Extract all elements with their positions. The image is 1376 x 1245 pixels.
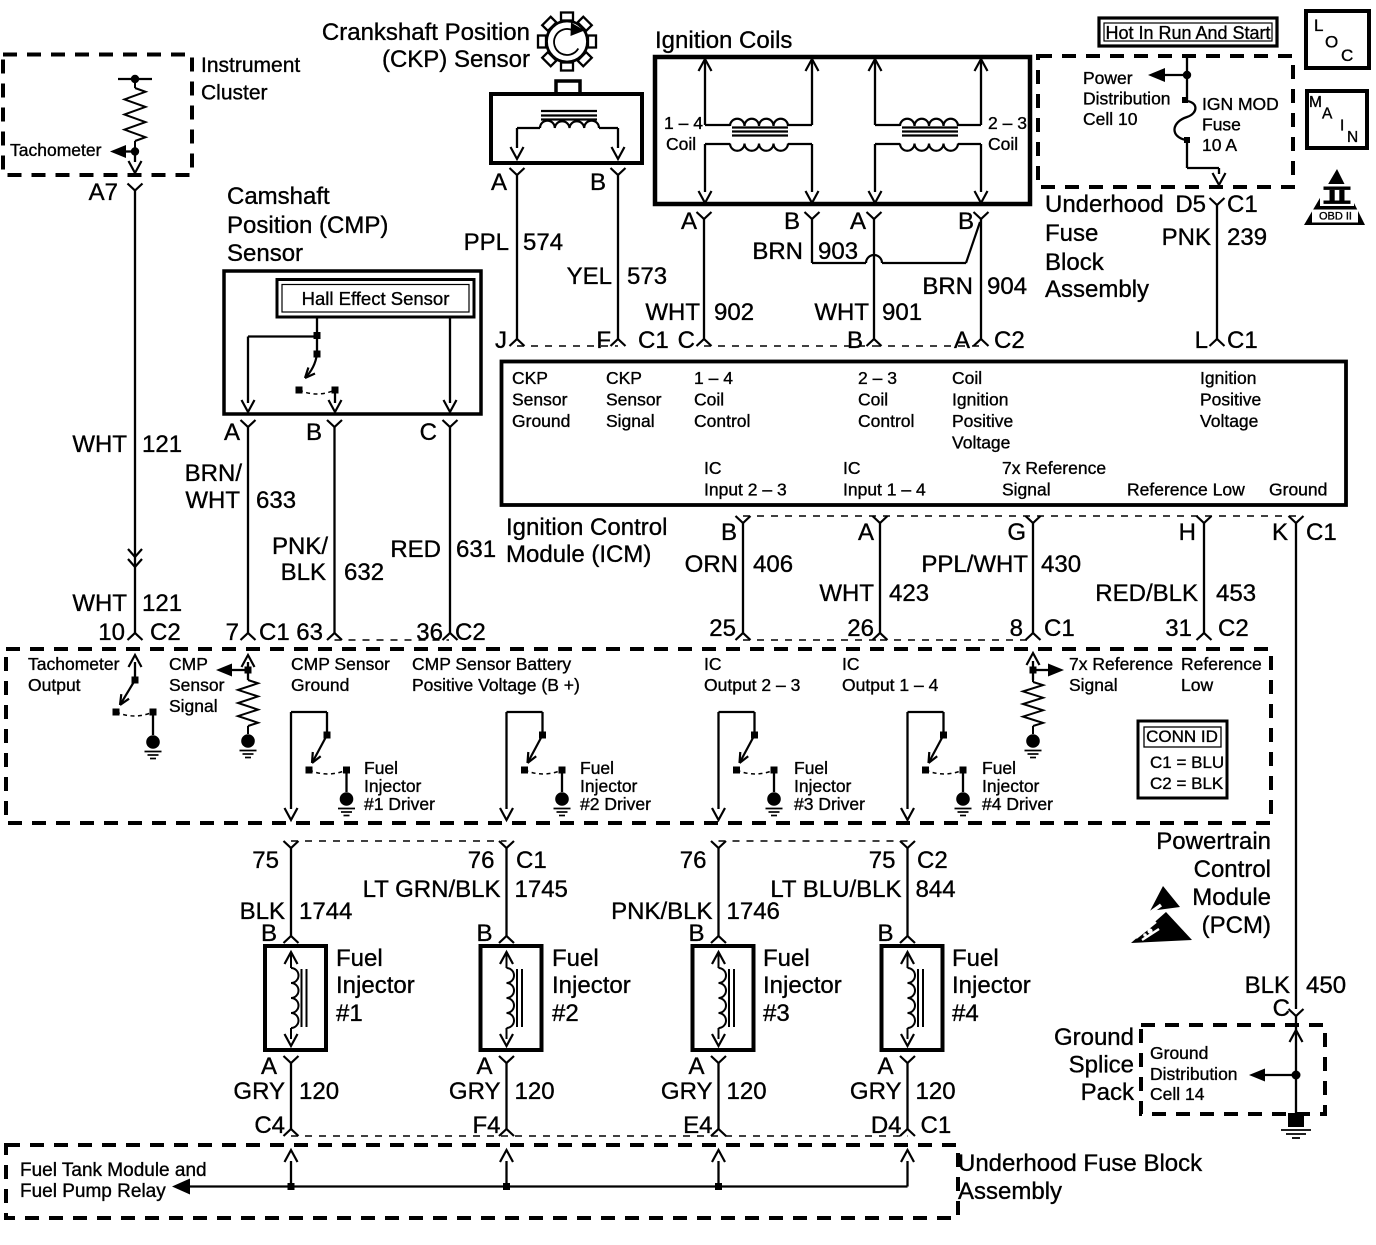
7x reference right arrow — [1033, 664, 1064, 677]
svg-text:B: B — [877, 920, 893, 947]
svg-text:Pack: Pack — [1081, 1079, 1135, 1106]
pin C label — [420, 419, 437, 446]
ICM label IC Input 1-4 — [843, 458, 926, 500]
label Fuel Injector #2 — [552, 945, 631, 1027]
svg-text:LT BLU/BLK: LT BLU/BLK — [770, 876, 901, 903]
wire WHT 423 — [879, 523, 881, 633]
PCM label CMP Sensor Ground — [291, 654, 390, 695]
pin G label bottom — [1007, 519, 1026, 546]
CKP pin A label — [491, 169, 507, 196]
pin 75 labels injector 1 — [252, 847, 279, 874]
label WHT 902 — [645, 299, 754, 326]
svg-text:Position (CMP): Position (CMP) — [227, 212, 388, 239]
pin A fork icm — [974, 339, 989, 346]
svg-text:A: A — [261, 1053, 277, 1080]
svg-text:1 – 4: 1 – 4 — [694, 368, 733, 388]
pin K fork bottom — [1289, 516, 1304, 523]
CKP sensor stub box — [556, 81, 580, 94]
CMP sensor box — [224, 271, 481, 414]
CKP wire B arrow — [612, 128, 625, 159]
svg-text:C1: C1 — [921, 1112, 952, 1139]
svg-text:Signal: Signal — [169, 696, 218, 716]
svg-text:Cell 10: Cell 10 — [1083, 109, 1138, 129]
wire BRN 904 — [980, 219, 982, 339]
label Ground Splice Pack — [1054, 1024, 1135, 1106]
label WHT 121 lower — [72, 590, 182, 617]
injector driver switch 1 — [285, 712, 356, 820]
label WHT 423 — [819, 580, 929, 607]
svg-text:B: B — [476, 920, 492, 947]
cmp signal contact — [245, 667, 252, 674]
ground splice pack box — [1141, 1025, 1325, 1114]
PCM label CMP Sensor Signal — [169, 654, 225, 716]
wire YEL 573 — [617, 176, 619, 340]
svg-text:#4: #4 — [952, 1000, 979, 1027]
svg-text:Ignition Control: Ignition Control — [506, 514, 667, 541]
wire BRN/WHT 633 — [247, 427, 249, 633]
svg-text:Control: Control — [1194, 856, 1271, 883]
hall effect sensor inner box — [282, 285, 469, 313]
svg-text:A: A — [688, 1053, 704, 1080]
label LT GRN/BLK 1745 — [363, 876, 568, 903]
pin 76 fork injector 2 — [499, 841, 514, 848]
ground splice junction dot — [1292, 1071, 1301, 1080]
pin 8 C1 labels — [1010, 615, 1075, 642]
connector dashes 26-8 — [880, 639, 1033, 641]
svg-text:B: B — [306, 419, 322, 446]
pin B fork icm — [867, 339, 882, 346]
svg-text:(CKP) Sensor: (CKP) Sensor — [382, 46, 530, 73]
svg-text:CONN ID: CONN ID — [1146, 727, 1218, 746]
junction dot bottom of resistor — [131, 147, 139, 155]
tach contact right — [150, 709, 157, 716]
arrow to ground distribution — [1249, 1069, 1296, 1082]
coil2 pin B fork — [974, 212, 989, 219]
svg-text:8: 8 — [1010, 615, 1023, 642]
connector dashes C-B — [704, 345, 874, 347]
svg-text:C1: C1 — [516, 847, 547, 874]
injector 4 solenoid — [901, 952, 923, 1046]
svg-text:121: 121 — [142, 431, 182, 458]
coil pin A label — [681, 208, 697, 235]
svg-text:C1: C1 — [259, 619, 290, 646]
svg-text:A: A — [476, 1053, 492, 1080]
svg-text:Coil: Coil — [666, 134, 696, 154]
svg-text:Reference: Reference — [1181, 654, 1262, 674]
svg-text:631: 631 — [456, 536, 496, 563]
svg-text:C: C — [1273, 995, 1290, 1022]
svg-text:239: 239 — [1227, 224, 1267, 251]
svg-text:Splice: Splice — [1069, 1052, 1134, 1079]
svg-text:A: A — [850, 208, 866, 235]
label GRY 120 injector 4 — [850, 1078, 956, 1105]
svg-text:Signal: Signal — [1002, 480, 1051, 500]
pin K C1 labels bottom — [1272, 519, 1337, 546]
injector 4 pin B label — [877, 920, 893, 947]
PCM label CMP Sensor Battery Positive Voltage — [412, 654, 580, 695]
pin 7 fork — [241, 633, 256, 640]
svg-text:L: L — [1195, 327, 1208, 354]
fuel injector 1 box — [265, 946, 326, 1050]
wire PNK 239 — [1216, 205, 1218, 339]
wire GRY 120 injector 4 — [906, 1063, 908, 1129]
injector driver switch 3 — [712, 712, 783, 820]
svg-text:#2 Driver: #2 Driver — [580, 794, 651, 814]
svg-text:Ground: Ground — [512, 411, 570, 431]
svg-text:633: 633 — [256, 487, 296, 514]
ICM label CKP Sensor Ground — [512, 368, 570, 431]
coil pin B fork — [805, 212, 820, 219]
injector 1 pin B label — [261, 920, 277, 947]
svg-text:C1: C1 — [638, 327, 669, 354]
label Ground Distribution Cell 14 — [1150, 1043, 1238, 1104]
underhood fuse block box top — [1038, 56, 1293, 187]
label ORN 406 — [685, 551, 793, 578]
svg-text:A: A — [491, 169, 507, 196]
wire into ground splice — [1295, 1016, 1297, 1113]
svg-text:Injector: Injector — [794, 776, 852, 796]
svg-text:Ground: Ground — [1054, 1024, 1134, 1051]
label Fuel Tank Module and Fuel Pump Relay — [20, 1160, 207, 1202]
resistor tachometer — [125, 79, 146, 152]
svg-text:GRY: GRY — [449, 1078, 501, 1105]
wire PPL/WHT 430 — [1032, 523, 1034, 633]
PCM label IC Output 2-3 — [704, 654, 800, 695]
svg-text:A: A — [954, 327, 970, 354]
svg-text:G: G — [1007, 519, 1026, 546]
svg-text:A: A — [224, 419, 240, 446]
ICM label 1-4 Coil Control — [694, 368, 750, 431]
wire ORN 406 — [742, 523, 744, 633]
label 2-3 Coil — [988, 113, 1027, 154]
powertrain control module box — [6, 649, 1271, 823]
svg-text:C1: C1 — [1044, 615, 1075, 642]
wire to pin B arrow — [329, 390, 342, 412]
svg-text:IC: IC — [704, 458, 722, 478]
svg-text:CKP: CKP — [512, 368, 548, 388]
connector dashes 25-26 — [743, 639, 880, 641]
pin C fork ground — [1289, 1009, 1304, 1016]
svg-text:C: C — [420, 419, 437, 446]
LOC legend box — [1306, 11, 1369, 68]
svg-text:120: 120 — [515, 1078, 555, 1105]
svg-text:26: 26 — [847, 615, 874, 642]
svg-text:C2: C2 — [150, 619, 181, 646]
svg-text:C2: C2 — [455, 619, 486, 646]
svg-text:Cell 14: Cell 14 — [1150, 1084, 1205, 1104]
svg-text:Injector: Injector — [763, 972, 842, 999]
coil2 pin B label — [958, 208, 974, 235]
connector dashes J-F — [517, 345, 618, 347]
svg-text:D5: D5 — [1175, 191, 1206, 218]
svg-text:A: A — [877, 1053, 893, 1080]
svg-text:Ground: Ground — [1150, 1043, 1208, 1063]
svg-text:C1 = BLU: C1 = BLU — [1150, 753, 1224, 772]
svg-text:Assembly: Assembly — [1045, 276, 1149, 303]
wire BRN 903 — [812, 219, 980, 263]
svg-text:L: L — [1314, 16, 1323, 35]
svg-text:Output: Output — [28, 675, 81, 695]
svg-text:B: B — [688, 920, 704, 947]
wire to pin C arrow — [444, 317, 457, 412]
pin A label bottom — [858, 519, 874, 546]
wire PNK/BLK 1746 — [717, 848, 719, 936]
svg-text:Fuel: Fuel — [552, 945, 599, 972]
pin B fork bottom — [736, 516, 751, 523]
ICM label 2-3 Coil Control — [858, 368, 914, 431]
pin 26 fork — [873, 633, 888, 640]
svg-text:C: C — [1341, 46, 1353, 65]
connector dashes 63-36 — [335, 639, 450, 641]
svg-text:CMP Sensor Battery: CMP Sensor Battery — [412, 654, 571, 674]
pin C fork icm — [697, 339, 712, 346]
PCM label Reference Low — [1181, 654, 1262, 695]
svg-text:2 – 3: 2 – 3 — [858, 368, 897, 388]
hot in run and start box — [1099, 18, 1277, 46]
fuel injector 4 box — [882, 946, 943, 1050]
pin B label icm — [847, 327, 863, 354]
svg-text:Coil: Coil — [988, 134, 1018, 154]
off-page double chevron — [128, 549, 142, 567]
pin E4 fork — [711, 1129, 726, 1136]
svg-text:10: 10 — [98, 619, 125, 646]
wire WHT 901 — [873, 219, 875, 339]
svg-text:430: 430 — [1041, 551, 1081, 578]
svg-text:2 – 3: 2 – 3 — [988, 113, 1027, 133]
svg-text:O: O — [1325, 33, 1338, 52]
pin B label — [306, 419, 322, 446]
wire RED 631 — [449, 427, 451, 633]
cmp signal left arrow — [216, 664, 248, 677]
svg-text:Control: Control — [858, 411, 914, 431]
junction dot top of resistor — [131, 75, 139, 83]
label GRY 120 injector 2 — [449, 1078, 555, 1105]
svg-text:BLK: BLK — [281, 559, 326, 586]
svg-text:Distribution: Distribution — [1150, 1064, 1238, 1084]
svg-text:75: 75 — [252, 847, 279, 874]
fuse contact top — [1182, 97, 1188, 103]
injector 4 pin B fork — [900, 936, 915, 943]
svg-text:GRY: GRY — [850, 1078, 902, 1105]
CKP wire A arrow — [511, 128, 524, 159]
wire WHT 121 — [134, 191, 136, 634]
svg-text:Powertrain: Powertrain — [1156, 828, 1271, 855]
coil 2-3 primary left arrow — [869, 59, 882, 125]
svg-text:C1: C1 — [1227, 191, 1258, 218]
wire BLK 1744 — [290, 848, 292, 936]
svg-text:ORN: ORN — [685, 551, 738, 578]
7x reference contact — [1030, 667, 1037, 674]
pin 25 label — [709, 615, 736, 642]
CKP reluctor gear icon — [538, 13, 596, 71]
svg-text:CMP: CMP — [169, 654, 208, 674]
ICM label 7x Reference Signal — [1002, 458, 1106, 500]
label BRN 904 — [922, 273, 1027, 300]
bus junction at 291 — [288, 1183, 295, 1190]
coil 1-4 secondary right arrow — [806, 144, 819, 203]
svg-text:Camshaft: Camshaft — [227, 183, 330, 210]
svg-text:Hall Effect Sensor: Hall Effect Sensor — [302, 288, 450, 309]
coil 2-3 core — [902, 128, 958, 136]
svg-text:Ignition Coils: Ignition Coils — [655, 27, 792, 54]
pin J fork — [510, 339, 525, 346]
label Fuel Injector #1 — [336, 945, 415, 1027]
label GRY 120 injector 3 — [661, 1078, 767, 1105]
svg-text:Injector: Injector — [580, 776, 638, 796]
injector 3 pin B fork — [711, 936, 726, 943]
wire GRY 120 injector 3 — [717, 1063, 719, 1129]
bus branch arrow at 506 — [500, 1150, 513, 1187]
svg-text:BRN: BRN — [922, 273, 973, 300]
svg-text:120: 120 — [916, 1078, 956, 1105]
svg-text:1745: 1745 — [515, 876, 568, 903]
contact dot right — [332, 387, 339, 394]
label YEL 573 — [567, 263, 667, 290]
svg-text:#1: #1 — [336, 1000, 363, 1027]
svg-text:Positive: Positive — [952, 411, 1013, 431]
svg-text:B: B — [958, 208, 974, 235]
tach switch dashed link — [116, 712, 153, 716]
injector 2 pin A label — [476, 1053, 492, 1080]
svg-text:Fuel: Fuel — [794, 758, 828, 778]
wire LT GRN/BLK 1745 — [505, 848, 507, 936]
pin J label — [495, 327, 507, 354]
svg-text:PPL/WHT: PPL/WHT — [921, 551, 1028, 578]
CMP switch blade — [305, 354, 317, 378]
svg-text:Reference Low: Reference Low — [1127, 480, 1245, 500]
svg-text:#4 Driver: #4 Driver — [982, 794, 1053, 814]
svg-text:YEL: YEL — [567, 263, 612, 290]
svg-text:36: 36 — [416, 619, 443, 646]
svg-text:B: B — [847, 327, 863, 354]
injector 2 solenoid — [500, 952, 522, 1046]
svg-text:76: 76 — [680, 847, 707, 874]
wire from box top — [1186, 56, 1188, 100]
pin A label — [224, 419, 240, 446]
svg-text:CMP Sensor: CMP Sensor — [291, 654, 390, 674]
svg-text:F: F — [596, 327, 611, 354]
svg-text:C1: C1 — [1306, 519, 1337, 546]
pin 63 fork — [327, 633, 342, 640]
svg-text:Injector: Injector — [982, 776, 1040, 796]
switch dashed link — [299, 390, 335, 394]
tach ground — [146, 735, 160, 749]
svg-text:904: 904 — [987, 273, 1027, 300]
wire down to A7 with arrow — [129, 152, 142, 174]
junction dot power — [1183, 71, 1191, 79]
wire BLK 450 upper — [1295, 523, 1297, 1009]
injector 3 pin A fork — [711, 1056, 726, 1063]
CKP pickup coil — [517, 121, 618, 128]
injector 1 solenoid — [285, 952, 307, 1046]
svg-text:Coil: Coil — [952, 368, 982, 388]
svg-text:A: A — [1322, 106, 1333, 123]
label Camshaft Position (CMP) Sensor — [227, 183, 388, 267]
hall effect sensor box — [277, 280, 474, 318]
ignition coils box — [655, 57, 1030, 204]
svg-text:J: J — [495, 327, 507, 354]
connector dashes bottom — [291, 1135, 908, 1137]
cmp signal resistor — [238, 670, 258, 734]
svg-text:Cluster: Cluster — [201, 82, 268, 105]
svg-text:Input 1 – 4: Input 1 – 4 — [843, 480, 926, 500]
svg-text:1744: 1744 — [299, 898, 352, 925]
svg-text:A: A — [858, 519, 874, 546]
coil 2-3 secondary left arrow — [869, 144, 882, 203]
svg-text:C2: C2 — [994, 327, 1025, 354]
svg-text:120: 120 — [727, 1078, 767, 1105]
pin C label — [678, 327, 695, 354]
fuel pump feed bus — [172, 1179, 908, 1195]
label PPL/WHT 430 — [921, 551, 1081, 578]
svg-text:120: 120 — [299, 1078, 339, 1105]
bus branch arrow at 291 — [285, 1150, 298, 1187]
svg-text:Coil: Coil — [694, 390, 724, 410]
svg-text:Fuse: Fuse — [1045, 220, 1098, 247]
fuel injector 2 box — [481, 946, 542, 1050]
svg-text:406: 406 — [753, 551, 793, 578]
CONN ID legend — [1138, 721, 1227, 798]
svg-text:Positive Voltage (B +): Positive Voltage (B +) — [412, 675, 580, 695]
injector 1 pin B fork — [284, 936, 299, 943]
pin 76 labels injector 3 — [680, 847, 707, 874]
underhood fuse block box bottom — [6, 1145, 958, 1218]
svg-text:IC: IC — [843, 458, 861, 478]
svg-text:Fuel Tank Module and: Fuel Tank Module and — [20, 1160, 207, 1181]
injector 2 pin A fork — [499, 1056, 514, 1063]
bus junction at 506 — [503, 1183, 510, 1190]
arrow to power distribution — [1148, 68, 1187, 82]
coil2 pin A fork — [867, 212, 882, 219]
svg-text:1 – 4: 1 – 4 — [664, 113, 703, 133]
fuel injector 3 box — [693, 946, 754, 1050]
wire LT BLU/BLK 844 — [906, 848, 908, 936]
7x reference ground — [1026, 734, 1040, 748]
svg-text:BRN/: BRN/ — [185, 460, 243, 487]
svg-text:Crankshaft Position: Crankshaft Position — [322, 19, 530, 46]
svg-text:Fuel: Fuel — [952, 945, 999, 972]
svg-text:903: 903 — [818, 238, 858, 265]
label PNK/BLK 632 — [272, 533, 384, 586]
label Fuel Injector 4 Driver — [982, 758, 1053, 814]
svg-text:F4: F4 — [472, 1112, 500, 1139]
wire GRY 120 injector 2 — [505, 1063, 507, 1129]
wire PNK/BLK 632 — [333, 427, 335, 633]
wire to pin A arrow — [242, 337, 255, 413]
pin D5 C1 labels — [1175, 191, 1257, 218]
svg-text:M: M — [1309, 94, 1322, 111]
svg-text:WHT: WHT — [72, 431, 127, 458]
PCM label IC Output 1-4 — [842, 654, 939, 695]
label Power Distribution Cell 10 — [1083, 68, 1171, 129]
svg-text:Instrument: Instrument — [201, 54, 300, 77]
pin D4 fork — [900, 1129, 915, 1136]
injector 2 pin B fork — [499, 936, 514, 943]
svg-text:Voltage: Voltage — [1200, 411, 1258, 431]
label WHT 901 — [814, 299, 922, 326]
svg-text:H: H — [1179, 519, 1196, 546]
svg-text:63: 63 — [296, 619, 323, 646]
wire RED/BLK 453 — [1203, 523, 1205, 633]
svg-text:E4: E4 — [683, 1112, 712, 1139]
label WHT 121 upper — [72, 431, 182, 458]
label Tachometer — [10, 140, 102, 160]
svg-text:IC: IC — [704, 654, 722, 674]
label Underhood Fuse Block Assembly bottom — [958, 1150, 1203, 1205]
coil 1-4 primary winding — [705, 119, 812, 126]
bus junction at 718 — [715, 1183, 722, 1190]
CKP sensor box — [491, 94, 642, 163]
